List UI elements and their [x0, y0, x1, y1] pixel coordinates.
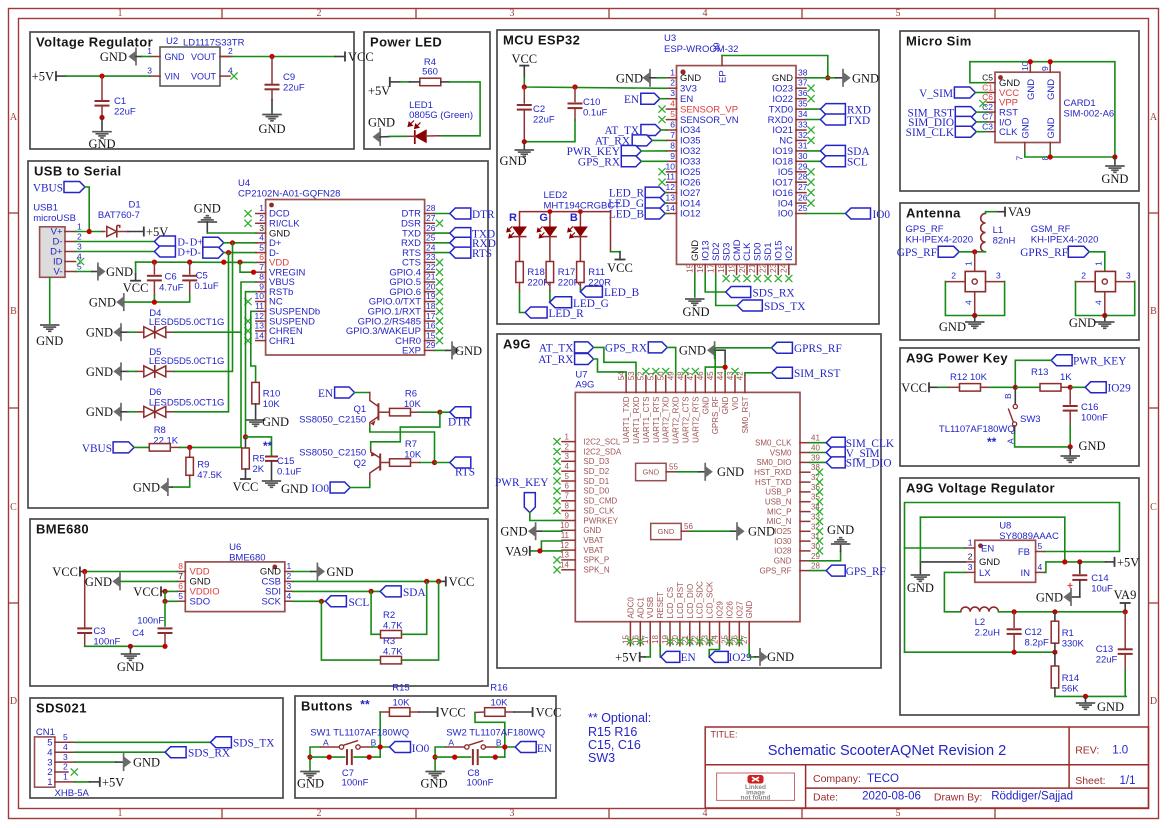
- svg-text:22: 22: [426, 262, 436, 272]
- wire R18 to LED_R label: [519, 283, 521, 292]
- svg-text:R5: R5: [253, 454, 265, 465]
- pin 12 U3 IO27: [667, 192, 677, 194]
- pin 9 U3 IO33: [667, 160, 677, 162]
- svg-text:13: 13: [560, 551, 569, 560]
- pin 25 U3 IO0: [796, 213, 806, 215]
- no-connect U4 pins 1,2: [244, 210, 251, 217]
- svg-text:EN: EN: [981, 544, 994, 555]
- pin 23 U7 LCD_SCK: [709, 622, 711, 646]
- svg-text:VBUS: VBUS: [82, 443, 112, 455]
- junction SDO node: [162, 599, 167, 604]
- svg-text:LCD_SDC: LCD_SDC: [696, 581, 705, 619]
- no-connect U7 bottom pins: [627, 638, 634, 645]
- svg-text:11: 11: [666, 172, 675, 182]
- svg-text:IO33: IO33: [680, 157, 701, 168]
- wire pin1 GND to arrow: [293, 571, 311, 573]
- pin 31 U7 IO30: [800, 540, 810, 542]
- pin 11 U4 SUSPENDb: [256, 310, 266, 312]
- pin 4 USB1 ID: [65, 261, 76, 263]
- label TXD from U3 RXD0: [806, 119, 820, 121]
- wire SCK to SCL: [293, 600, 326, 602]
- svg-text:SD_D2: SD_D2: [583, 467, 609, 476]
- svg-text:I2C2_SCL: I2C2_SCL: [583, 437, 620, 446]
- wire D+ to U4 pin4: [224, 242, 256, 244]
- wire R9 to GND arrow: [172, 481, 190, 487]
- wire GPS_RX to pin49: [667, 347, 675, 375]
- wire VCC to R12: [929, 386, 938, 388]
- emission arrows LED1: [408, 121, 421, 129]
- section box A9G: [497, 334, 881, 668]
- svg-text:34: 34: [798, 109, 808, 119]
- svg-text:14: 14: [666, 203, 676, 213]
- svg-text:C: C: [10, 502, 17, 513]
- ground symbol GND below C1: [101, 118, 103, 131]
- svg-text:L2: L2: [975, 617, 986, 628]
- svg-text:C2: C2: [533, 104, 545, 115]
- no-connect pin 4 U2: [230, 73, 237, 80]
- svg-text:GND: GND: [682, 305, 709, 319]
- junction VBAT: [537, 548, 542, 553]
- pin 16 U7 ADC1: [639, 622, 641, 646]
- pin 3 U6 SDI: [285, 590, 293, 592]
- pin 1 USB1 V+: [65, 231, 76, 233]
- label RTS from U4 pin24: [434, 252, 449, 254]
- ground symbol GND (BME680 pin1): [317, 566, 324, 576]
- svg-text:SCL: SCL: [349, 597, 370, 609]
- svg-text:1: 1: [964, 261, 974, 266]
- svg-text:GPS_RX: GPS_RX: [605, 343, 647, 355]
- svg-text:SS8050_C2150: SS8050_C2150: [299, 415, 366, 426]
- svg-text:ESP-WROOM-32: ESP-WROOM-32: [664, 44, 738, 55]
- power symbol +5V (A9G): [639, 652, 641, 662]
- svg-text:GND: GND: [852, 71, 879, 85]
- svg-text:56: 56: [684, 522, 693, 531]
- junction VDD rail C6: [152, 260, 157, 265]
- svg-text:GND: GND: [642, 468, 659, 477]
- resistor R11 220R: [577, 262, 585, 283]
- pin 22 U3 SD1: [767, 264, 769, 274]
- pin 20 U3 CLK: [746, 264, 748, 274]
- wire R17 to LED_G label: [549, 283, 551, 292]
- label IO0 (transistor): [330, 482, 350, 493]
- svg-text:U3: U3: [664, 33, 676, 44]
- svg-text:1: 1: [287, 561, 292, 571]
- ground symbol GND below R9: [161, 482, 168, 492]
- svg-text:LESD5D5.0CT1G: LESD5D5.0CT1G: [149, 317, 225, 328]
- section box A9G Power Key: [900, 348, 1139, 466]
- svg-text:SCK: SCK: [261, 596, 281, 607]
- pin 10 U4 NC: [256, 301, 266, 303]
- label SIM_CLK to CARD1 CLK: [955, 126, 976, 137]
- junction R1 bottom: [1052, 650, 1057, 655]
- capacitor C7 100nF: [310, 756, 345, 758]
- svg-text:ADC0: ADC0: [626, 597, 635, 619]
- junction node B: [1013, 385, 1018, 390]
- svg-text:+5V: +5V: [1117, 555, 1139, 569]
- svg-text:B: B: [10, 306, 17, 317]
- svg-text:B: B: [1150, 306, 1157, 317]
- wire USB D- to crossover: [76, 241, 155, 243]
- svg-text:13: 13: [666, 193, 676, 203]
- pin 1 CN1: [55, 781, 75, 783]
- capacitor C10 0.1uF: [574, 87, 576, 102]
- pin 17 U7 VUSB: [649, 622, 651, 646]
- svg-text:VCC: VCC: [233, 480, 259, 494]
- svg-text:40: 40: [811, 444, 820, 453]
- junction VREGIN: [251, 270, 256, 275]
- label TXD from U4 pin26: [434, 232, 449, 234]
- ground symbol GND at USB V-: [98, 266, 105, 276]
- svg-text:IO4: IO4: [778, 198, 793, 209]
- svg-text:9: 9: [670, 151, 675, 161]
- pin C3 CARD1 CLK: [987, 131, 995, 133]
- junction LED2 anode bus: [548, 209, 553, 214]
- svg-text:RESET: RESET: [656, 592, 665, 619]
- svg-text:EN: EN: [318, 388, 333, 400]
- ground symbol GND left of U3 pin1: [643, 73, 650, 83]
- ground symbol GND (SW2): [425, 771, 445, 773]
- svg-text:C6: C6: [165, 272, 177, 283]
- svg-text:GND: GND: [297, 777, 324, 791]
- junction VDD rail C5: [187, 260, 192, 265]
- pin 34 U7 MIC_P: [800, 511, 810, 513]
- junction VCC rail C2: [522, 84, 527, 89]
- svg-text:C3: C3: [982, 122, 993, 132]
- svg-text:CLK: CLK: [999, 127, 1018, 138]
- pin 5 USB1 V-: [65, 271, 76, 273]
- resistor R18 220R: [516, 262, 524, 283]
- svg-text:LCD_RST: LCD_RST: [676, 582, 685, 619]
- pin 38 U3 GND: [796, 77, 806, 79]
- svg-text:TXD0: TXD0: [769, 104, 793, 115]
- pin 45 U7 GPRS_RF: [714, 376, 716, 393]
- svg-text:8: 8: [565, 501, 570, 510]
- svg-text:**: **: [987, 435, 997, 449]
- svg-text:0805G (Green): 0805G (Green): [409, 110, 473, 121]
- label LED_R to U3 pin12: [645, 187, 665, 198]
- wire pin38 GND: [806, 77, 836, 79]
- pin 29 U4 EXP: [425, 349, 435, 351]
- svg-text:VUSB: VUSB: [646, 597, 655, 619]
- wire VA9 output rail: [998, 611, 1125, 613]
- svg-text:GPS_RF: GPS_RF: [897, 247, 937, 259]
- wire VA9 to L1: [996, 211, 1005, 213]
- svg-text:VCC: VCC: [133, 585, 159, 599]
- wire to C15: [246, 437, 272, 457]
- wire SDO tie: [165, 591, 177, 601]
- wire EXP to GND: [434, 349, 446, 351]
- svg-text:IO0: IO0: [778, 209, 793, 220]
- svg-text:TECO: TECO: [867, 773, 899, 785]
- pin 5 U7 SD_D1: [562, 480, 575, 482]
- svg-text:C15: C15: [277, 456, 294, 467]
- pin 19 U4 GPIO.0/TXT: [425, 301, 435, 303]
- svg-text:Date:: Date:: [813, 792, 838, 804]
- pin 34 U3 RXD0: [796, 119, 806, 121]
- svg-text:3: 3: [968, 562, 973, 572]
- capacitor C13 22uF: [1124, 612, 1126, 648]
- svg-text:I2C2_SDA: I2C2_SDA: [583, 447, 621, 456]
- svg-text:GND: GND: [1046, 79, 1057, 100]
- svg-text:13: 13: [255, 321, 265, 331]
- pin 3 U8 LX: [965, 571, 975, 573]
- pin 24 U7 IO29: [719, 622, 721, 646]
- svg-text:EXP: EXP: [402, 346, 421, 357]
- pin 8 U4 VBUS: [256, 281, 266, 283]
- svg-text:UART1_RXD: UART1_RXD: [632, 396, 641, 444]
- svg-text:D6: D6: [149, 387, 161, 398]
- wire SW2 B to EN node: [486, 746, 498, 748]
- svg-text:14: 14: [255, 330, 265, 340]
- svg-text:GND: GND: [117, 660, 144, 674]
- svg-text:U2: U2: [166, 36, 178, 47]
- power symbol +5V (SDS021): [99, 777, 101, 787]
- svg-text:CARD1: CARD1: [1064, 98, 1096, 109]
- svg-text:44: 44: [716, 371, 725, 380]
- wire C16 to GND rail: [1069, 425, 1071, 447]
- svg-text:SDS_RX: SDS_RX: [188, 748, 230, 760]
- ground symbol GND below C15: [262, 480, 281, 482]
- label LED_R: [525, 307, 547, 318]
- svg-text:IO34: IO34: [680, 125, 701, 136]
- wire SIM_RST to pin42: [745, 373, 772, 376]
- svg-text:GND: GND: [194, 202, 221, 216]
- svg-text:3: 3: [670, 88, 675, 98]
- pin 24 U4 RTS: [425, 252, 435, 254]
- svg-text:CMD: CMD: [732, 239, 743, 261]
- svg-text:25: 25: [426, 233, 436, 243]
- inductor L2 2.2uH: [961, 607, 999, 612]
- svg-text:KH-IPEX4-2020: KH-IPEX4-2020: [1031, 235, 1099, 246]
- pin 1 U7 I2C2_SCL: [562, 441, 575, 443]
- wire pin8 to bottom rail: [1049, 152, 1051, 157]
- ground symbol GND at EXP: [452, 345, 459, 355]
- wire inner top line: [920, 516, 1064, 518]
- pin 22 U7 LCD_SDC: [699, 622, 701, 646]
- svg-text:IO23: IO23: [772, 83, 793, 94]
- power symbol VCC below rail: [135, 262, 137, 274]
- pin 14 U3 IO12: [667, 213, 677, 215]
- svg-text:2: 2: [317, 8, 322, 19]
- svg-text:SIM_RST: SIM_RST: [794, 368, 841, 380]
- svg-text:C12: C12: [1025, 627, 1042, 638]
- wire U4 VBUS riser: [241, 282, 256, 447]
- label SDA: [380, 586, 401, 597]
- svg-text:5: 5: [896, 808, 901, 819]
- label SCL from U3 IO18: [806, 160, 820, 162]
- wire USB shield to GND: [49, 277, 51, 323]
- pin 15 U4 CHR0: [425, 340, 435, 342]
- junction C1 top: [99, 74, 104, 79]
- svg-text:R12: R12: [950, 372, 967, 383]
- svg-text:10K: 10K: [393, 697, 411, 708]
- pin C1 CARD1 VCC: [987, 92, 995, 94]
- ground symbol GND below U3 pin15: [694, 275, 696, 298]
- svg-text:10K: 10K: [970, 372, 988, 383]
- svg-text:53: 53: [627, 371, 636, 380]
- svg-text:R14: R14: [1062, 673, 1079, 684]
- svg-text:IO0: IO0: [412, 743, 430, 755]
- svg-text:DTR: DTR: [472, 209, 495, 221]
- wire U2 pin1 to GND: [136, 56, 142, 58]
- svg-text:4: 4: [1094, 300, 1104, 305]
- wire R15 riser to IO0 node: [379, 712, 381, 747]
- wire R6 to DTR node: [420, 411, 440, 413]
- section box USB to Serial: [28, 161, 488, 508]
- ground symbol GND (A9G pin10): [529, 526, 536, 536]
- ground symbol GND at pin56: [737, 526, 744, 536]
- svg-text:SM0_RST: SM0_RST: [741, 396, 750, 433]
- svg-text:82nH: 82nH: [993, 236, 1016, 247]
- no-connect CN1 pin2: [71, 768, 78, 775]
- wire VUSB pin17 to +5V: [645, 646, 650, 657]
- junction pin38 GND: [825, 75, 830, 80]
- junction GPS ant ground: [972, 313, 977, 318]
- pin 19 U7 LCD_CS: [669, 622, 671, 646]
- wire GND to LED1 cathode: [380, 136, 389, 138]
- svg-text:GND: GND: [680, 73, 701, 84]
- power symbol +5V (Power LED): [389, 77, 391, 87]
- svg-text:6: 6: [565, 482, 570, 491]
- pin 4 U3 SENSOR_VP: [667, 108, 677, 110]
- svg-text:R2: R2: [383, 610, 395, 621]
- pin 16 U4 GPIO.3/WAKEUP: [425, 330, 435, 332]
- pin 51 U7 UART1_RTS: [655, 376, 657, 393]
- svg-text:GND: GND: [1079, 439, 1106, 453]
- capacitor C15 0.1uF: [265, 456, 278, 458]
- junction C3 top: [82, 569, 87, 574]
- svg-text:USB to Serial: USB to Serial: [34, 164, 122, 179]
- wire +5V to R4: [390, 81, 400, 83]
- svg-text:1: 1: [968, 538, 973, 548]
- svg-text:AT_RX: AT_RX: [538, 354, 573, 366]
- svg-text:D1: D1: [129, 200, 141, 211]
- label AT_TX (A9G): [575, 342, 594, 353]
- svg-text:IO5: IO5: [778, 167, 793, 178]
- svg-text:22uF: 22uF: [114, 107, 136, 118]
- junction pin8 bottom: [1048, 154, 1053, 159]
- pin 37 U7 HST_TXD: [800, 481, 810, 483]
- svg-text:C15, C16: C15, C16: [588, 738, 641, 752]
- svg-text:SW3: SW3: [588, 751, 615, 765]
- label SCL: [325, 596, 346, 607]
- svg-text:IO26: IO26: [680, 177, 701, 188]
- wire USB V- to GND arrow: [76, 271, 92, 273]
- junction VA9 riser: [1123, 609, 1128, 614]
- svg-text:SD2: SD2: [711, 242, 722, 260]
- pin 29 U3 IO5: [796, 171, 806, 173]
- svg-text:SDS021: SDS021: [36, 701, 87, 716]
- label GPS_RX to U3 pin9: [621, 156, 641, 167]
- svg-text:GPS_RX: GPS_RX: [578, 157, 620, 169]
- svg-text:VCC: VCC: [536, 705, 562, 719]
- svg-text:3: 3: [287, 581, 292, 591]
- no-connect U3 pins 4,5: [658, 106, 665, 113]
- svg-text:VCC: VCC: [440, 705, 466, 719]
- svg-text:31: 31: [798, 140, 808, 150]
- svg-text:SS8050_C2150: SS8050_C2150: [299, 448, 366, 459]
- ground symbol GND GPS antenna: [974, 316, 976, 322]
- pin 2 U8 GND: [965, 561, 975, 563]
- inductor L1 82nH: [981, 213, 986, 251]
- svg-text:Röddiger/Sajjad: Röddiger/Sajjad: [991, 791, 1073, 803]
- label RTS (transistor): [435, 462, 450, 464]
- svg-text:IO29: IO29: [716, 601, 725, 619]
- svg-text:CP2102N-A01-GQFN28: CP2102N-A01-GQFN28: [238, 189, 340, 200]
- label SIM_RST to CARD1 RST: [955, 107, 976, 118]
- pin 7 U7 SD_CMD: [562, 500, 575, 502]
- svg-text:29: 29: [798, 161, 808, 171]
- svg-text:R15: R15: [392, 683, 409, 694]
- svg-text:VSM0: VSM0: [770, 448, 792, 457]
- capacitor C2 22uF: [523, 87, 525, 103]
- pin 3 U3 EN: [667, 98, 677, 100]
- junction GPS_RF node: [959, 251, 975, 253]
- svg-text:LED_G: LED_G: [573, 298, 609, 310]
- svg-text:GND: GND: [133, 481, 160, 495]
- pin 2 U7 I2C2_SDA: [562, 451, 575, 453]
- junction VDD rail riser1: [221, 260, 226, 265]
- pin 20 U4 GPIO.6: [425, 291, 435, 293]
- svg-text:5: 5: [63, 732, 68, 742]
- svg-text:+5V: +5V: [32, 70, 54, 84]
- svg-text:RXD0: RXD0: [768, 115, 793, 126]
- label VBUS (top): [64, 182, 85, 193]
- pin 1 U2: [150, 56, 160, 58]
- svg-text:1: 1: [77, 221, 82, 231]
- svg-text:3: 3: [510, 808, 515, 819]
- pin 36 U7 USB_P: [800, 491, 810, 493]
- svg-text:**: **: [263, 439, 273, 453]
- label IO29 (A9G Power Key): [1070, 386, 1085, 388]
- svg-text:Voltage Regulator: Voltage Regulator: [36, 35, 153, 50]
- wire FB mid rail: [905, 651, 1055, 653]
- svg-text:CHR1: CHR1: [269, 336, 295, 347]
- svg-text:VCC: VCC: [123, 281, 149, 295]
- svg-text:LED2: LED2: [544, 190, 568, 201]
- svg-text:12: 12: [255, 311, 265, 321]
- junction FB riser on 5V rail: [1062, 559, 1067, 564]
- pin 3 U4 GND: [256, 232, 266, 234]
- wire VOUT to VCC: [220, 56, 232, 58]
- svg-text:SD_D0: SD_D0: [583, 487, 609, 496]
- pin 14 U4 CHR1: [256, 340, 266, 342]
- svg-text:3: 3: [510, 8, 515, 19]
- svg-text:2: 2: [951, 271, 956, 281]
- wire R10 to GND: [255, 404, 257, 419]
- svg-text:GND: GND: [36, 334, 63, 348]
- pin 2 U3 3V3: [667, 87, 677, 89]
- svg-text:R11: R11: [588, 267, 605, 278]
- wire CN1 pin3 to GND: [75, 761, 116, 763]
- svg-text:24: 24: [426, 242, 436, 252]
- pin 7 U4 VREGIN: [256, 271, 266, 273]
- capacitor C3 100nF: [84, 572, 86, 629]
- wire Q2 base to R7: [380, 462, 389, 464]
- svg-text:Buttons: Buttons: [301, 699, 353, 714]
- svg-text:U8: U8: [999, 521, 1011, 532]
- svg-text:17: 17: [426, 311, 436, 321]
- svg-text:D-: D-: [190, 247, 202, 258]
- svg-text:EN: EN: [537, 743, 552, 755]
- power symbol VCC: [344, 52, 346, 62]
- svg-text:7: 7: [565, 492, 570, 501]
- svg-text:29: 29: [426, 340, 436, 350]
- svg-text:GND: GND: [690, 240, 701, 261]
- label LED_G: [550, 297, 572, 308]
- svg-text:SD_CLK: SD_CLK: [583, 506, 615, 515]
- wire U4 RSTb riser: [246, 292, 256, 437]
